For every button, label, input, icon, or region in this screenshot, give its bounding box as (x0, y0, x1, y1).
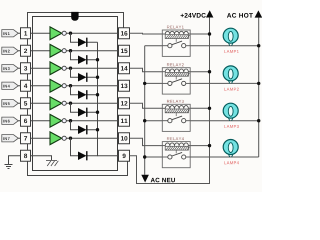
wire pin 8 to internal ground (31, 156, 52, 160)
wire input row 3 (31, 67, 51, 69)
wire pin to relay 3 coil (130, 103, 163, 108)
wire input row 6 (31, 120, 51, 122)
node diode bus junction (96, 76, 99, 79)
wire to diode 7 (71, 138, 79, 156)
wire to diode 6 (71, 121, 79, 130)
node diode bus junction (96, 58, 99, 61)
diode D1 (78, 38, 87, 47)
wire to diode 2 (71, 51, 79, 60)
lamp label LAMP3 (224, 125, 238, 128)
wire relay 2 coil to +24VDC rail (190, 71, 209, 73)
lamp label LAMP2 (224, 88, 238, 91)
relay label RELAY3 (167, 100, 184, 103)
node input flag IN7 (2, 135, 21, 142)
node output junction 5 (69, 102, 72, 105)
relay RELAY1 (162, 30, 190, 56)
node +24VDC junction relay 1 (208, 32, 211, 35)
node output junction 2 (69, 49, 72, 52)
wire relay 1 NO contact to lamp and AC HOT (190, 45, 259, 47)
node output junction 4 (69, 84, 72, 87)
node AC NEU junction relay 4 (143, 155, 146, 158)
pin 12 (119, 98, 130, 109)
diode D4 (78, 90, 87, 99)
wire input row 2 (31, 50, 51, 52)
inverter buffer 7 (50, 132, 62, 145)
node +24VDC junction relay 3 (208, 107, 211, 110)
wire diode 2 cathode (88, 59, 98, 61)
wire input row 7 (31, 137, 51, 139)
wire relay 3 NO contact to lamp and AC HOT (190, 120, 259, 122)
inverter buffer 6 (50, 114, 62, 127)
node input flag IN1 (2, 30, 21, 37)
node AC HOT junction lamp 2 (257, 82, 260, 85)
wire pin to relay 2 coil (130, 68, 163, 71)
wire input row 1 (31, 32, 51, 34)
wire input row 5 (31, 102, 51, 104)
pin 6 (21, 115, 31, 126)
node AC NEU junction relay 3 (143, 119, 146, 122)
diode D2 (78, 55, 87, 64)
wire diode common bus to pin 9 (98, 42, 119, 156)
inverter buffer 1 (50, 27, 62, 40)
inverter buffer 4 (50, 79, 62, 92)
node input flag IN2 (2, 47, 21, 54)
wire pin 9 COM to +24VDC (130, 146, 210, 184)
diode D6 (78, 125, 87, 134)
pin 8 (21, 150, 31, 161)
relay label RELAY4 (167, 137, 184, 140)
node output junction 7 (69, 137, 72, 140)
lamp LAMP1 (223, 28, 238, 46)
wire diode 6 cathode (88, 129, 98, 131)
inverter bubble 6 (62, 119, 66, 123)
wire output row 2 (66, 50, 118, 52)
pin 9 (119, 150, 130, 161)
wire output row 1 (66, 32, 118, 34)
inverter bubble 4 (62, 84, 66, 88)
op-amp U1 IC body ULN2003 (33, 17, 118, 171)
pin 2 (21, 45, 31, 56)
node AC HOT junction lamp 3 (257, 119, 260, 122)
lamp label LAMP1 (224, 50, 238, 53)
node diode bus junction (96, 111, 99, 114)
node AC NEU junction relay 2 (143, 82, 146, 85)
relay RELAY4 (162, 142, 190, 168)
wire output row 4 (66, 85, 118, 87)
inverter bubble 1 (62, 31, 66, 35)
pin 3 (21, 63, 31, 74)
wire AC HOT rail (258, 18, 260, 158)
inverter buffer 2 (50, 44, 62, 57)
wire diode 4 cathode (88, 94, 98, 96)
wire pin to relay 4 coil (130, 138, 163, 145)
node input flag IN3 (2, 65, 21, 72)
wire AC NEU collector (144, 46, 146, 175)
pin 7 (21, 133, 31, 144)
wire relay 3 coil to +24VDC rail (190, 107, 209, 109)
wire diode 3 cathode (88, 76, 98, 78)
diode D3 (78, 73, 87, 82)
pin 16 (119, 28, 130, 39)
node diode bus junction (96, 128, 99, 131)
node diode bus junction (96, 93, 99, 96)
relay RELAY3 (162, 104, 190, 131)
wire output row 7 (66, 137, 118, 139)
wire relay 2 common to AC NEU (145, 82, 163, 84)
wire to diode 5 (71, 103, 79, 112)
wire output row 6 (66, 120, 118, 122)
relay label RELAY2 (167, 63, 184, 66)
relay RELAY2 (162, 68, 190, 94)
wire relay 1 common to AC NEU (145, 45, 163, 47)
inverter bubble 7 (62, 136, 66, 140)
node AC HOT junction lamp 1 (257, 44, 260, 47)
wire diode 5 cathode (88, 111, 98, 113)
wire input row 4 (31, 85, 51, 87)
lamp label LAMP4 (224, 161, 239, 164)
wire output row 3 (66, 67, 118, 69)
IC pin-1 notch (71, 12, 78, 21)
node +24VDC junction relay 2 (208, 70, 211, 73)
ground (5, 156, 21, 169)
node output junction 6 (69, 119, 72, 122)
node +24VDC supply label and arrow (181, 10, 214, 17)
wire COM loop around IC body (28, 13, 128, 176)
node input flag IN6 (2, 117, 21, 124)
pin 11 (119, 115, 130, 126)
wire relay 1 coil to +24VDC rail (190, 33, 209, 35)
node input flag IN5 (2, 100, 21, 107)
wire relay 4 common to AC NEU (145, 156, 163, 158)
pin 14 (119, 63, 130, 74)
node AC NEU label and arrow (141, 175, 175, 183)
node output junction 3 (69, 67, 72, 70)
wire diode 7 cathode (88, 155, 98, 157)
lamp LAMP2 (223, 66, 238, 84)
pin 1 (21, 28, 31, 39)
wire relay 2 NO contact to lamp and AC HOT (190, 82, 259, 84)
node AC HOT label and arrow (227, 10, 262, 17)
node input flag IN4 (2, 82, 21, 89)
wire relay 4 coil to +24VDC rail (190, 145, 209, 147)
inverter buffer 5 (50, 97, 62, 110)
wire relay 3 common to AC NEU (145, 120, 163, 122)
node output junction 1 (69, 32, 72, 35)
inverter bubble 5 (62, 101, 66, 105)
inverter bubble 2 (62, 49, 66, 53)
lamp LAMP4 (223, 140, 238, 158)
wire diode 1 cathode (88, 41, 98, 43)
wire +24VDC rail (209, 17, 211, 145)
internal chassis ground symbol (46, 161, 58, 167)
pin 15 (119, 45, 130, 56)
diode D7 (78, 151, 87, 160)
node +24VDC junction relay 4 (208, 144, 211, 147)
lamp LAMP3 (223, 103, 238, 121)
pin 5 (21, 98, 31, 109)
wire output row 5 (66, 102, 118, 104)
inverter buffer 3 (50, 62, 62, 75)
diode D5 (78, 108, 87, 117)
pin 4 (21, 80, 31, 91)
wire to diode 4 (71, 86, 79, 95)
inverter bubble 3 (62, 66, 66, 70)
pin 13 (119, 80, 130, 91)
wire pin to relay 1 coil (130, 32, 163, 35)
wire to diode 3 (71, 68, 79, 77)
wire relay 4 NO contact to lamp and AC HOT (190, 156, 259, 158)
wire to diode 1 (71, 33, 79, 42)
pin 10 (119, 133, 130, 144)
relay label RELAY1 (167, 26, 184, 29)
